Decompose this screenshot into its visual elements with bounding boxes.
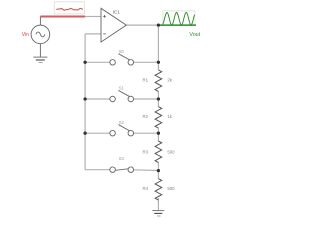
svg-text:Vout: Vout	[189, 32, 200, 38]
svg-text:500: 500	[167, 186, 175, 191]
svg-text:IC1: IC1	[113, 9, 121, 14]
svg-text:R2: R2	[143, 114, 149, 119]
svg-text:S2: S2	[119, 120, 125, 125]
svg-text:R1: R1	[143, 77, 149, 82]
svg-text:R4: R4	[143, 186, 149, 191]
svg-text:S0: S0	[119, 49, 125, 54]
svg-text:S1: S1	[119, 86, 125, 91]
svg-text:S3: S3	[119, 156, 125, 161]
svg-text:R3: R3	[143, 150, 149, 155]
svg-text:500: 500	[167, 150, 175, 155]
svg-text:Vin: Vin	[22, 32, 29, 38]
